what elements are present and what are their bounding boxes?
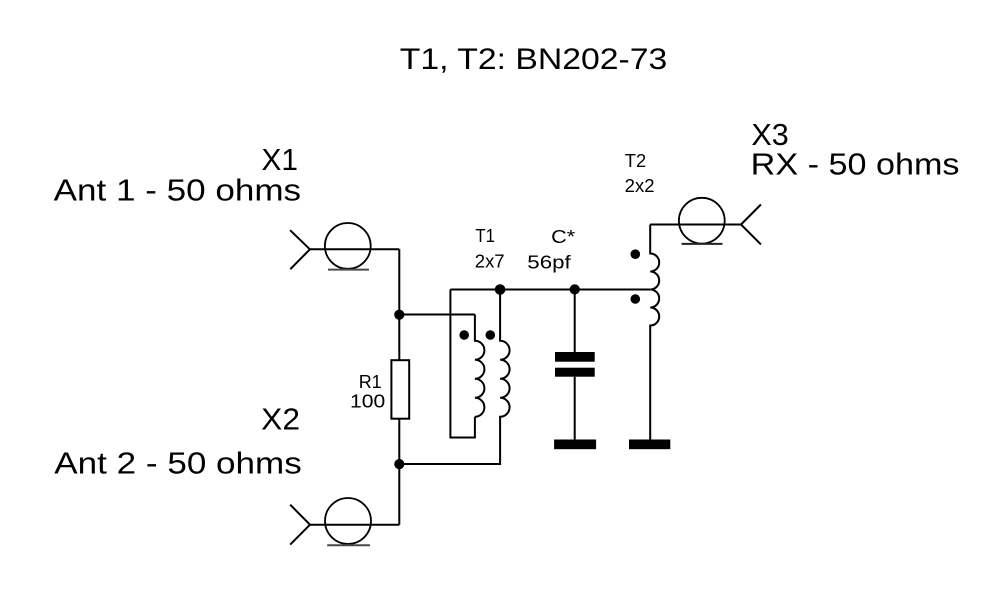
svg-text:X1: X1 (262, 143, 299, 177)
svg-text:C*: C* (551, 226, 575, 247)
svg-text:2x2: 2x2 (625, 175, 655, 196)
svg-text:Ant 1 - 50 ohms: Ant 1 - 50 ohms (54, 173, 302, 207)
svg-text:2x7: 2x7 (475, 250, 505, 271)
svg-text:100: 100 (350, 391, 385, 412)
svg-text:Ant 2 - 50 ohms: Ant 2 - 50 ohms (54, 447, 301, 481)
svg-text:T1: T1 (475, 225, 495, 246)
svg-text:56pf: 56pf (527, 251, 572, 272)
svg-text:RX - 50 ohms: RX - 50 ohms (751, 148, 960, 182)
svg-text:X2: X2 (261, 403, 300, 437)
svg-text:R1: R1 (359, 371, 382, 392)
svg-text:T1, T2: BN202-73: T1, T2: BN202-73 (400, 44, 668, 76)
svg-text:T2: T2 (625, 150, 646, 171)
